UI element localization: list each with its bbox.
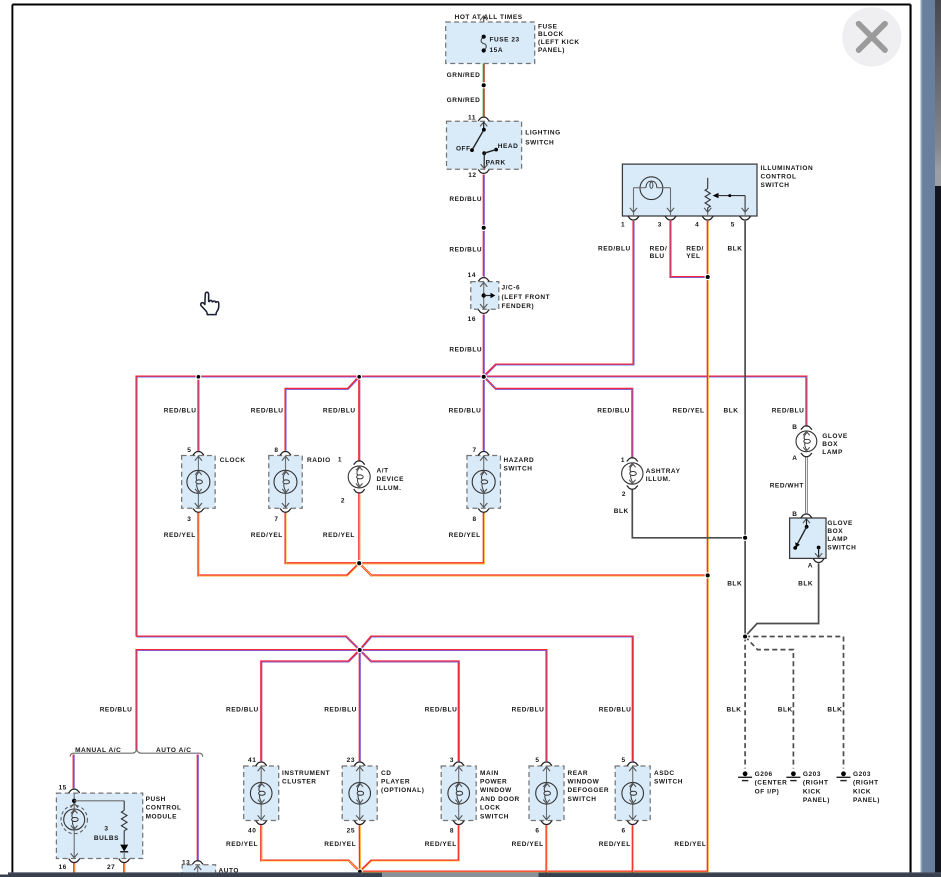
- label RED/YEL MPW: [425, 841, 457, 848]
- svg-text:11: 11: [468, 115, 476, 122]
- svg-text:J/C-6: J/C-6: [502, 284, 521, 291]
- label MAIN POWER WINDOW AND DOOR LOCK SWITCH: [480, 770, 520, 821]
- hazard switch lamp: [467, 451, 501, 512]
- rear window defogger switch lamp: [529, 762, 564, 825]
- svg-text:15A: 15A: [490, 47, 504, 54]
- wire RED/YEL CD return: [359, 825, 362, 872]
- glove box lamp switch pin A arc: [813, 559, 824, 563]
- wire RED/BLU auto AC drop: [197, 755, 200, 861]
- label RED/YEL ASDC: [599, 841, 631, 848]
- svg-text:LOCK: LOCK: [480, 805, 501, 812]
- label RED/YEL pin4 label: [673, 408, 705, 415]
- svg-text:15: 15: [58, 784, 66, 791]
- svg-text:5: 5: [535, 757, 539, 764]
- label hazard pin 7: [473, 447, 477, 454]
- svg-text:12: 12: [468, 172, 476, 179]
- wire RED/YEL PCM pin27 stub: [123, 863, 126, 873]
- label OFF: [456, 145, 471, 152]
- svg-text:WINDOW: WINDOW: [480, 787, 512, 794]
- label RED/YEL illum4: [686, 246, 704, 260]
- label RED/BLU cluster: [226, 706, 259, 713]
- svg-text:ILLUM.: ILLUM.: [377, 485, 402, 492]
- svg-text:13: 13: [182, 859, 190, 866]
- svg-text:2: 2: [341, 497, 345, 504]
- hand cursor: [201, 292, 219, 314]
- wire RED/YEL PCM pin16 stub: [73, 863, 76, 873]
- wire RED/WHT glove lamp to switch: [805, 456, 807, 513]
- auto AC box partial: [182, 865, 215, 877]
- label illum pin 4: [695, 222, 699, 229]
- wire RED/YEL defogger return: [545, 825, 548, 873]
- wire RED/BLU AT device drop: [358, 377, 361, 462]
- label ASHTRAY ILLUM.: [646, 468, 681, 483]
- wire BLK glove switch ground: [745, 563, 819, 636]
- illumination switch lamp: [634, 177, 671, 200]
- svg-text:SWITCH: SWITCH: [480, 813, 509, 820]
- push control module box: [56, 793, 142, 858]
- label RED/BLU AC: [100, 706, 133, 713]
- label BLK glove switch label: [798, 580, 813, 587]
- label radio pin 8: [274, 447, 278, 454]
- svg-text:A/T: A/T: [377, 467, 389, 474]
- wire RED/BLU to illumination pin 1: [484, 221, 634, 377]
- svg-text:BULBS: BULBS: [94, 835, 119, 842]
- label AUTO label: [219, 868, 240, 875]
- svg-text:RED/WHT: RED/WHT: [770, 483, 804, 490]
- wire RED/YEL AT return: [358, 492, 361, 563]
- svg-text:CONTROL: CONTROL: [761, 174, 797, 181]
- svg-text:ASDC: ASDC: [654, 770, 675, 777]
- svg-text:BLK: BLK: [724, 408, 739, 415]
- svg-text:ASHTRAY: ASHTRAY: [646, 468, 681, 475]
- wire BLK illumination pin 5 down: [744, 221, 746, 637]
- svg-text:SWITCH: SWITCH: [827, 544, 856, 551]
- svg-text:RED/: RED/: [650, 246, 668, 253]
- label INSTRUMENT CLUSTER: [282, 770, 330, 786]
- svg-text:SWITCH: SWITCH: [504, 466, 533, 473]
- node splice RED/BLU above J/C: [481, 225, 486, 230]
- svg-text:RED/BLU: RED/BLU: [599, 706, 632, 713]
- svg-text:3: 3: [658, 222, 662, 229]
- wire BLK ashtray ground: [632, 489, 745, 538]
- wire RED/BLU lighting sw 12 to J/C 14: [483, 175, 486, 278]
- label BLK pin5 lower label: [727, 580, 742, 587]
- svg-text:RED/YEL: RED/YEL: [324, 841, 356, 848]
- node node RED/YEL mid bus: [357, 561, 362, 566]
- label glove switch pin B: [792, 511, 797, 518]
- label ASDC pin 6: [622, 827, 626, 834]
- glove box lamp switch pin B arc: [801, 514, 812, 518]
- svg-text:BOX: BOX: [822, 441, 838, 448]
- wire RED/YEL mid bus to pin4 line: [359, 563, 708, 576]
- label PCM pin 15: [58, 784, 66, 791]
- label RED/BLU illum3: [650, 246, 668, 260]
- svg-text:RED/YEL: RED/YEL: [512, 841, 544, 848]
- label MPW pin 3: [450, 757, 454, 764]
- label RED/BLU ashtray label: [597, 408, 630, 415]
- svg-text:SWITCH: SWITCH: [568, 796, 597, 803]
- svg-text:RED/: RED/: [686, 246, 704, 253]
- svg-text:HAZARD: HAZARD: [504, 457, 535, 464]
- illumination control switch box: [622, 164, 757, 216]
- J/C-6 pin 14 arc: [478, 278, 489, 282]
- label AUTO A/C: [156, 747, 191, 754]
- svg-text:GLOVE: GLOVE: [827, 520, 853, 527]
- glove box lamp: [796, 426, 817, 457]
- svg-text:RED/YEL: RED/YEL: [226, 841, 258, 848]
- label CLOCK: [220, 457, 246, 464]
- label illum pin 3: [658, 222, 662, 229]
- hot feed arrow: [480, 16, 487, 22]
- svg-text:(LEFT FRONT: (LEFT FRONT: [502, 294, 551, 301]
- wire RED/YEL bottom bus right: [360, 870, 709, 873]
- label A/T DEVICE ILLUM.: [377, 467, 405, 491]
- bottom scrollbar: [0, 872, 941, 877]
- svg-text:HEAD: HEAD: [498, 143, 519, 150]
- svg-text:KICK: KICK: [803, 788, 821, 795]
- label GRN/RED 1: [447, 72, 481, 79]
- svg-text:RED/BLU: RED/BLU: [323, 408, 356, 415]
- svg-text:A: A: [792, 455, 797, 462]
- label hazard pin 8: [473, 516, 477, 523]
- svg-text:SWITCH: SWITCH: [654, 779, 683, 786]
- wire RED/BLU splice2 to defogger switch: [360, 650, 547, 762]
- PCM pin 16 arc: [69, 859, 80, 863]
- label PCM pin 27: [107, 864, 115, 871]
- svg-text:RED/YEL: RED/YEL: [674, 841, 706, 848]
- label RED/BLU b: [449, 247, 482, 254]
- svg-text:BLK: BLK: [727, 580, 742, 587]
- svg-text:CONTROL: CONTROL: [146, 805, 182, 812]
- instrument cluster lamp: [244, 762, 279, 825]
- svg-text:SWITCH: SWITCH: [761, 182, 790, 189]
- svg-text:ILLUMINATION: ILLUMINATION: [761, 165, 814, 172]
- label RED/WHT: [770, 483, 804, 490]
- label RED/YEL AT label: [323, 532, 355, 539]
- clock lamp: [182, 451, 216, 512]
- radio lamp: [269, 451, 303, 512]
- main power window switch lamp: [441, 762, 476, 825]
- svg-text:27: 27: [107, 864, 115, 871]
- svg-text:B: B: [792, 424, 797, 431]
- wire GRN/RED splice to lighting switch pin 11: [483, 85, 486, 117]
- svg-text:KICK: KICK: [853, 788, 871, 795]
- svg-text:5: 5: [622, 757, 626, 764]
- auto AC pin 13 arc: [192, 861, 203, 865]
- svg-text:ILLUM.: ILLUM.: [646, 476, 671, 483]
- label MPW pin 8: [450, 827, 454, 834]
- svg-text:6: 6: [535, 827, 539, 834]
- svg-text:CLUSTER: CLUSTER: [282, 779, 317, 786]
- svg-text:RED/BLU: RED/BLU: [449, 408, 482, 415]
- PCM pin 15 arc: [69, 789, 80, 793]
- wire RED/YEL cluster return: [261, 825, 360, 872]
- svg-text:BLK: BLK: [728, 246, 743, 253]
- label AT pin 2: [341, 497, 345, 504]
- label RED/YEL defogger: [512, 841, 544, 848]
- svg-text:3: 3: [450, 757, 454, 764]
- svg-text:PLAYER: PLAYER: [381, 779, 410, 786]
- svg-text:RED/BLU: RED/BLU: [449, 346, 482, 353]
- label FUSE 23 15A: [490, 36, 520, 54]
- wire RED/BLU main bus: [137, 377, 485, 638]
- svg-text:CLOCK: CLOCK: [220, 457, 246, 464]
- label HEAD: [498, 143, 519, 150]
- label glove lamp pin B: [792, 424, 797, 431]
- svg-text:5: 5: [731, 222, 735, 229]
- label PCM pin 16: [58, 864, 66, 871]
- label HAZARD SWITCH: [504, 457, 535, 473]
- label RED/BLU CD: [324, 706, 357, 713]
- label cluster pin 41: [248, 757, 256, 764]
- svg-text:RED/BLU: RED/BLU: [512, 706, 545, 713]
- svg-text:POWER: POWER: [480, 779, 507, 786]
- glove box lamp switch box: [790, 518, 826, 558]
- lighting switch internals: [470, 122, 498, 169]
- svg-text:MANUAL A/C: MANUAL A/C: [75, 747, 121, 754]
- svg-text:PARK: PARK: [486, 160, 506, 167]
- label ILLUMINATION CONTROL SWITCH: [761, 165, 814, 189]
- label ashtray pin 1: [621, 457, 625, 464]
- label FUSE BLOCK (LEFT KICK PANEL): [538, 23, 580, 54]
- wire RED/BLU to glove box lamp: [484, 377, 807, 428]
- svg-text:HOT AT ALL TIMES: HOT AT ALL TIMES: [455, 14, 523, 21]
- svg-text:BLK: BLK: [798, 580, 813, 587]
- label BLK ground 1: [727, 706, 742, 713]
- svg-text:FUSE: FUSE: [538, 23, 558, 30]
- node node ground junction: [743, 634, 748, 639]
- label RED/BLU MPW: [425, 706, 458, 713]
- node splice GRN/RED: [481, 83, 486, 88]
- glove box lamp switch internals: [793, 519, 822, 558]
- label CD pin 23: [347, 757, 355, 764]
- label ASDC SWITCH: [654, 770, 683, 786]
- svg-text:G203: G203: [853, 771, 871, 778]
- svg-text:RED/BLU: RED/BLU: [100, 706, 133, 713]
- svg-text:41: 41: [248, 757, 256, 764]
- label RED/BLU AT label: [323, 408, 356, 415]
- svg-text:SWITCH: SWITCH: [525, 140, 554, 147]
- svg-text:8: 8: [473, 516, 477, 523]
- manual/auto AC bracket: [70, 750, 203, 757]
- svg-text:PANEL): PANEL): [853, 797, 880, 804]
- ground G203 a symbol: [786, 771, 800, 780]
- svg-text:LIGHTING: LIGHTING: [525, 129, 560, 136]
- svg-text:23: 23: [347, 757, 355, 764]
- lighting switch box: [447, 121, 522, 169]
- svg-text:RED/YEL: RED/YEL: [164, 532, 196, 539]
- svg-text:PANEL): PANEL): [538, 47, 565, 54]
- node node illumination pin3/4 join: [705, 274, 710, 279]
- wire RED/BLU clock drop: [197, 377, 200, 452]
- svg-text:14: 14: [468, 272, 476, 279]
- label RED/YEL radio label: [251, 532, 283, 539]
- label BLK ground 2: [778, 706, 793, 713]
- svg-text:(OPTIONAL): (OPTIONAL): [381, 787, 424, 794]
- label pin 12: [468, 172, 476, 179]
- label ASDC pin 5: [622, 757, 626, 764]
- label BLK illum5: [728, 246, 743, 253]
- label illum pin 5: [731, 222, 735, 229]
- svg-text:PUSH: PUSH: [146, 796, 166, 803]
- wire fuse block internal top: [483, 22, 485, 37]
- label ground G206: [755, 771, 788, 795]
- wire GRN/RED fuse to splice: [483, 64, 486, 86]
- fuse block box: [446, 22, 535, 64]
- svg-text:RED/YEL: RED/YEL: [251, 532, 283, 539]
- svg-text:RED/BLU: RED/BLU: [324, 706, 357, 713]
- wire fuse block internal bottom: [483, 51, 485, 64]
- illumination switch lamp drops: [630, 188, 674, 216]
- svg-text:GLOVE: GLOVE: [822, 433, 848, 440]
- node splice2 lower distribution: [357, 647, 362, 652]
- svg-text:(RIGHT: (RIGHT: [853, 780, 879, 787]
- wire RED/BLU to ashtray illum: [484, 377, 633, 459]
- PCM lamp: [61, 793, 87, 858]
- svg-text:(LEFT KICK: (LEFT KICK: [538, 39, 580, 46]
- label RED/BLU defogger: [512, 706, 545, 713]
- label MANUAL A/C: [75, 747, 121, 754]
- label CD PLAYER (OPTIONAL): [381, 770, 424, 794]
- PCM pin 27 arc: [119, 859, 130, 863]
- label GLOVE BOX LAMP SWITCH: [827, 520, 856, 552]
- label PARK: [486, 160, 506, 167]
- svg-text:RED/BLU: RED/BLU: [425, 706, 458, 713]
- label RED/YEL CD: [324, 841, 356, 848]
- label BLK ground 3: [827, 706, 842, 713]
- wire RED/YEL clock return: [198, 513, 359, 576]
- svg-text:A: A: [808, 563, 813, 570]
- J/C-6 pin 16 arc: [478, 310, 489, 314]
- close button: [842, 7, 901, 66]
- illumination pin arcs: [628, 216, 639, 220]
- label ashtray pin 2: [622, 491, 626, 498]
- label glove switch pin A: [808, 563, 813, 570]
- A/T device illumination lamp: [348, 461, 370, 493]
- right scrollbar area: [912, 0, 941, 877]
- illumination rheostat: [704, 178, 711, 216]
- wire BLK dashed to G206: [744, 637, 746, 769]
- label GLOVE BOX LAMP: [822, 433, 848, 456]
- svg-text:LAMP: LAMP: [822, 449, 843, 456]
- svg-text:MODULE: MODULE: [146, 813, 178, 820]
- label REAR WINDOW DEFOGGER SWITCH: [568, 770, 610, 803]
- label cluster pin 40: [248, 827, 256, 834]
- svg-text:RED/YEL: RED/YEL: [673, 408, 705, 415]
- wire BLK dashed to G203 right kick 2: [745, 637, 843, 769]
- label AT pin 1: [338, 457, 342, 464]
- svg-text:25: 25: [347, 827, 355, 834]
- label radio pin 7: [274, 516, 278, 523]
- svg-text:REAR: REAR: [568, 770, 589, 777]
- label auto AC pin 13: [182, 859, 190, 866]
- svg-text:MAIN: MAIN: [480, 770, 499, 777]
- label defogger pin 5: [535, 757, 539, 764]
- label RED/YEL right: [674, 841, 706, 848]
- wire RED/YEL ASDC return: [632, 825, 635, 873]
- svg-text:FENDER): FENDER): [502, 303, 535, 310]
- label RED/BLU hazard label: [449, 408, 482, 415]
- svg-text:5: 5: [187, 447, 191, 454]
- svg-text:RED/BLU: RED/BLU: [598, 246, 631, 253]
- svg-text:RED/YEL: RED/YEL: [599, 841, 631, 848]
- svg-text:3: 3: [104, 825, 108, 832]
- svg-text:RED/YEL: RED/YEL: [425, 841, 457, 848]
- svg-text:BLK: BLK: [778, 706, 793, 713]
- fuse F23 element: [481, 35, 486, 53]
- svg-text:40: 40: [248, 827, 256, 834]
- svg-text:DEFOGGER: DEFOGGER: [568, 787, 610, 794]
- svg-text:4: 4: [695, 222, 699, 229]
- label RED/BLU c: [449, 346, 482, 353]
- svg-text:RED/YEL: RED/YEL: [323, 532, 355, 539]
- label 3 BULBS: [94, 825, 119, 842]
- svg-text:(CENTER: (CENTER: [755, 780, 788, 787]
- svg-text:YEL: YEL: [686, 253, 700, 260]
- svg-text:RED/BLU: RED/BLU: [597, 408, 630, 415]
- label clock pin 3: [187, 516, 191, 523]
- svg-text:AUTO A/C: AUTO A/C: [156, 747, 191, 754]
- svg-text:BOX: BOX: [827, 528, 843, 535]
- wire RED/BLU splice2 to AC feed: [137, 650, 361, 751]
- wire RED/YEL radio return: [286, 513, 360, 564]
- PCM resistor and diode: [74, 801, 128, 859]
- svg-text:RED/BLU: RED/BLU: [449, 247, 482, 254]
- svg-text:OFF: OFF: [456, 145, 471, 152]
- label illum pin 1: [621, 222, 625, 229]
- svg-text:(RIGHT: (RIGHT: [803, 780, 829, 787]
- wire RED/BLU J/C 16 to main splice: [483, 315, 486, 378]
- svg-text:AND DOOR: AND DOOR: [480, 796, 520, 803]
- svg-text:RADIO: RADIO: [307, 457, 331, 464]
- svg-text:1: 1: [621, 222, 625, 229]
- label BLK ashtray label: [614, 508, 629, 515]
- svg-text:GRN/RED: GRN/RED: [447, 97, 481, 104]
- ground G203 b symbol: [837, 771, 851, 780]
- wire RED/BLU manual AC drop: [73, 755, 76, 789]
- svg-text:BLOCK: BLOCK: [538, 31, 564, 38]
- label CD pin 25: [347, 827, 355, 834]
- junction connector J/C-6 box: [471, 282, 499, 310]
- wire RED/YEL illumination pin 4 down: [707, 221, 710, 873]
- svg-text:G203: G203: [803, 771, 821, 778]
- label RED/BLU a: [449, 196, 482, 203]
- wire RED/BLU hazard drop: [483, 377, 486, 452]
- wire BLK dashed to G203 right kick 1: [745, 637, 793, 769]
- svg-text:BLK: BLK: [614, 508, 629, 515]
- J/C-6 internals: [480, 282, 495, 309]
- CD player lamp: [342, 762, 377, 825]
- node node ashtray BLK join: [743, 535, 748, 540]
- label RED/BLU illum1: [598, 246, 631, 253]
- node main splice node: [481, 374, 486, 379]
- svg-text:BLK: BLK: [727, 706, 742, 713]
- label HOT AT ALL TIMES: [455, 14, 523, 21]
- label pin 11: [468, 115, 476, 122]
- label defogger pin 6: [535, 827, 539, 834]
- svg-text:FUSE 23: FUSE 23: [490, 36, 520, 43]
- label RED/BLU clock label: [164, 408, 197, 415]
- svg-text:PANEL): PANEL): [803, 797, 830, 804]
- svg-text:RED/BLU: RED/BLU: [164, 408, 197, 415]
- label pin 16: [468, 316, 476, 323]
- svg-text:OF I/P): OF I/P): [755, 788, 780, 795]
- svg-text:RED/BLU: RED/BLU: [226, 706, 259, 713]
- svg-text:BLU: BLU: [650, 253, 665, 260]
- label RED/BLU ASDC: [599, 706, 632, 713]
- node node bottom bus: [358, 869, 363, 874]
- svg-text:WINDOW: WINDOW: [568, 779, 600, 786]
